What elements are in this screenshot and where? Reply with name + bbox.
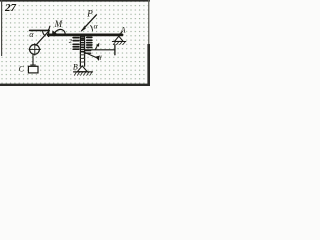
column right edge xyxy=(84,36,86,66)
support A hatching xyxy=(113,42,125,45)
pulley wheel xyxy=(30,45,40,55)
rod end tick xyxy=(114,45,116,55)
arrowhead of force P xyxy=(80,25,86,33)
frame right border lower (dark) xyxy=(147,44,150,86)
svg-text:γ: γ xyxy=(99,54,102,61)
svg-text:B: B xyxy=(73,62,78,71)
support A triangle xyxy=(115,36,124,41)
angle arc alpha (at P) xyxy=(91,25,93,31)
paper background xyxy=(0,0,150,86)
support B hatching xyxy=(74,72,92,75)
inclined arrow from column xyxy=(85,53,98,59)
wire: horizontal stub at left corner xyxy=(30,29,50,31)
angle arc alpha (left) xyxy=(43,31,46,36)
small arrow on rod (up-right) xyxy=(95,45,97,49)
beam (main horizontal bar) xyxy=(48,34,122,37)
svg-text:27: 27 xyxy=(4,2,17,14)
frame left border (partial) xyxy=(1,0,2,56)
column hatch right lower rungs xyxy=(85,51,90,54)
pulley spokes xyxy=(34,44,36,56)
column interior hatch xyxy=(81,37,85,52)
svg-text:P: P xyxy=(86,8,93,18)
support B triangle xyxy=(77,66,87,72)
column hatch right block xyxy=(87,37,92,47)
rope down to weight C xyxy=(32,54,34,65)
column interior lower rungs xyxy=(81,55,84,62)
frame bottom border xyxy=(0,84,150,86)
support B ground line xyxy=(74,71,93,73)
frame top border xyxy=(0,0,150,2)
column left edge xyxy=(79,36,81,66)
svg-text:C: C xyxy=(19,64,25,73)
rod to the right xyxy=(85,49,115,51)
frame right border upper (faint) xyxy=(148,0,149,50)
rope from corner to pulley xyxy=(36,31,49,45)
wire: vertical step at corner xyxy=(48,30,50,37)
weight block (load C) xyxy=(28,66,38,73)
rope overshoot tick above corner xyxy=(49,26,50,30)
svg-text:A: A xyxy=(120,25,126,34)
moment M arc xyxy=(54,29,65,35)
arrowhead of pointer at A xyxy=(119,33,122,37)
svg-text:M: M xyxy=(54,19,63,29)
arrowhead of inclined arrow xyxy=(95,56,99,61)
force P shaft xyxy=(82,15,97,31)
pointer line at A xyxy=(119,31,122,35)
column hatch left block xyxy=(73,38,79,50)
hook bar on weight xyxy=(31,64,36,66)
support A base line xyxy=(112,41,125,43)
arrowhead of moment M xyxy=(52,30,57,35)
